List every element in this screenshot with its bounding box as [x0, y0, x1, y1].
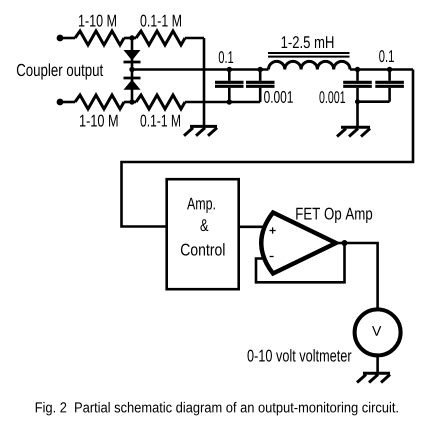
resistor R3 (1-10 M, bottom): [75, 95, 124, 109]
node top rail / diode branch: [129, 35, 134, 40]
label FET Op Amp: [296, 208, 372, 223]
label L1 value 1-2.5 mH: [282, 36, 334, 48]
label R2 value 0.1-1 M: [140, 15, 180, 27]
node cap return: [355, 99, 360, 104]
caption Fig. 2: [36, 402, 398, 416]
op-amp U2 (FET Op Amp): [261, 213, 336, 274]
capacitor C1 (0.1 left): [215, 70, 244, 103]
wire box output to op-amp + input: [239, 226, 265, 229]
wire R1 to R2 (top rail): [124, 37, 136, 40]
wire R3 to R4 (bottom rail): [124, 101, 136, 104]
label C4 value 0.1: [379, 50, 394, 62]
op-amp - input marker: [270, 256, 274, 258]
diode D1 (pointing down): [124, 50, 141, 61]
capacitor C3 (0.001 right): [343, 70, 372, 102]
wire middle rail (inductor to right corner): [350, 68, 413, 71]
capacitor C4 (0.1 right): [375, 70, 404, 102]
voltmeter M1: [355, 309, 401, 355]
label R1 value 1-10 M: [79, 15, 116, 27]
label Amp.: [187, 198, 215, 213]
node cap C3 top: [355, 67, 360, 72]
node diode midpoint: [129, 67, 134, 72]
resistor R1 (1-10 M, top): [75, 31, 124, 45]
resistor R4 (0.1-1 M, bottom): [136, 95, 185, 109]
wire voltmeter to ground: [376, 355, 379, 372]
wire R2 to top-right corner: [185, 37, 204, 40]
wire cap return connector: [358, 102, 390, 126]
ground (below voltmeter): [357, 373, 390, 382]
wire vertical from top rail down to ground: [203, 38, 206, 126]
wire feedback loop (output to - input): [256, 245, 345, 282]
inductor L1 (1-2.5 mH): [269, 61, 350, 69]
wire middle rail down right side and across to amp: [122, 70, 414, 227]
inductor L1 core lines: [268, 53, 350, 57]
label R3 value 1-10 M: [80, 115, 118, 127]
terminal dot (bottom input): [57, 99, 64, 106]
label C1 value 0.1: [219, 51, 233, 63]
wire top input to R1: [63, 37, 75, 40]
node bottom rail / diode branch: [129, 99, 134, 104]
wire op-amp output to voltmeter: [336, 243, 378, 309]
ground (below right capacitors): [337, 127, 370, 136]
node cap C1 bottom: [227, 99, 232, 104]
wire bottom rail to capacitor returns: [185, 101, 260, 104]
wire bottom input to R3: [63, 101, 75, 104]
resistor R2 (0.1-1 M, top): [136, 31, 185, 45]
op-amp + input marker: [270, 227, 276, 233]
node cap C1 top: [227, 67, 232, 72]
label Control: [181, 243, 225, 255]
label 0-10 volt voltmeter: [247, 349, 351, 361]
label V inside voltmeter: [372, 326, 381, 336]
node cap C2 top: [258, 67, 263, 72]
ground (below top-rail vertical): [184, 126, 217, 135]
node cap C4 top: [387, 67, 392, 72]
label Coupler output: [17, 63, 103, 79]
wire diode branch vertical: [131, 38, 134, 102]
capacitor C2 (0.001 left): [246, 70, 275, 103]
label R4 value 0.1-1 M: [140, 115, 180, 127]
node op-amp output: [342, 240, 348, 246]
wire middle rail (diodes to inductor): [132, 68, 269, 71]
label &: [200, 219, 208, 231]
amp and control box U1: [167, 179, 239, 289]
terminal dot (top input): [57, 35, 64, 42]
label C2 value 0.001: [264, 91, 293, 103]
label C3 value 0.001: [319, 91, 345, 103]
diode D2 (pointing up): [124, 77, 141, 80]
